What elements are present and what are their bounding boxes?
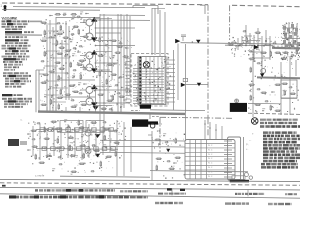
transistor Q1 body [86, 19, 93, 26]
wire signal run y42 [181, 43, 301, 45]
bias resistor network [41, 22, 47, 24]
TB1 area texture [152, 137, 153, 138]
transistor Q3 base wire [80, 55, 86, 57]
preamp diode D9 [95, 154, 100, 158]
rectifier parts [231, 42, 237, 44]
screw terminal E1 [143, 62, 149, 68]
title row 1 right [158, 193, 163, 195]
transistor Q2 body [86, 33, 93, 40]
module texture [135, 75, 136, 76]
wire collector stubs [95, 19, 97, 41]
driver stage parts [99, 37, 101, 43]
wire drops into bus [46, 107, 48, 113]
note row 3 [2, 26, 6, 28]
wire run y140 to table [100, 139, 185, 142]
board boundary A top (dash) [2, 3, 208, 5]
supply wire from header [133, 5, 158, 7]
note block 6 [4, 64, 7, 66]
pilot lamp LP1 [261, 68, 266, 73]
preamp transistor Q8 [85, 148, 91, 154]
transistor Q1 base wire [80, 22, 86, 24]
wire bus verticals to module [117, 14, 119, 112]
junctions above TB1 [204, 123, 206, 125]
svg-text:P-.: P-. [246, 144, 249, 147]
board boundary B top (dash) [232, 5, 300, 6]
chassis screw E2 [251, 118, 258, 125]
wire drop x185 [185, 44, 187, 141]
transistor Q5 base wire [80, 89, 86, 91]
svg-text:–·: –· [249, 139, 251, 143]
wire run y152 to table [100, 151, 185, 154]
wire verticals center top [151, 8, 153, 55]
module U1 pin dots [139, 57, 141, 59]
emitter link wire [89, 26, 91, 33]
note row 2 [2, 23, 7, 25]
transistor Q6 base wire [80, 101, 86, 103]
pilot lamp arrow [260, 73, 264, 77]
CN2 cap [232, 176, 245, 180]
title rule 1 [0, 179, 300, 181]
header rule upper [13, 7, 145, 8]
power connector black block [230, 103, 247, 112]
note block 8 paragraph [2, 98, 7, 100]
right mid texture [254, 61, 255, 62]
boundary A bottom (dash-dot) [160, 117, 233, 118]
wire drop x173 [173, 50, 175, 110]
transistor Q1 emitter arrow [91, 17, 97, 22]
right mid parts [249, 58, 255, 60]
title row 2 left [9, 196, 15, 199]
wire mains run [225, 44, 254, 46]
terminal cross mark [235, 99, 239, 103]
wire run y146 to table [103, 145, 185, 148]
transistor Q5 body [86, 87, 93, 94]
emitter link wire [89, 94, 91, 99]
connector CN2 body [228, 137, 241, 180]
title dark ticks [167, 188, 172, 190]
transistor Q2 base wire [80, 36, 86, 38]
transformer secondary parts [283, 52, 289, 54]
title rule 2 [0, 187, 300, 190]
module U1 body [138, 57, 166, 105]
board boundary B left edge (dash-dot) [229, 5, 231, 40]
left column wiring stubs [44, 23, 58, 25]
title rule 3 [0, 194, 300, 198]
title dashed separator [0, 183, 300, 186]
transformer T1 core [272, 47, 300, 50]
preamp diode D8 [95, 134, 100, 138]
relay RY1 innards [282, 83, 288, 85]
wire top runs [56, 17, 100, 19]
transistor Q4 emitter arrow [91, 68, 97, 73]
wire rails left column [46, 25, 48, 112]
module U1 left edge band [139, 56, 142, 106]
parts near TB1 [155, 139, 161, 141]
note row 6 [5, 42, 8, 44]
transistor Q3 body [86, 52, 93, 59]
note rule 2 [5, 34, 42, 36]
left column scan texture [77, 17, 80, 20]
collector out wires [93, 18, 112, 20]
wire mid runs [95, 27, 135, 29]
chassis dashed line right [248, 113, 300, 114]
dash marks under bus [131, 110, 140, 112]
transformer T1 winding blob [283, 26, 286, 30]
connector CN2 pins [224, 140, 232, 142]
transistor Q5 emitter arrow [91, 84, 97, 89]
input diode D10 [166, 149, 170, 152]
svg-text:V.d.b.MW.: V.d.b.MW. [2, 17, 18, 21]
transistor Q6 emitter arrow [91, 102, 97, 107]
title row 1 left [35, 189, 38, 191]
preamp texture [85, 151, 86, 152]
transistor Q4 base wire [80, 67, 86, 69]
note row 1 [2, 20, 6, 22]
boundary A stub below [207, 118, 209, 137]
module U1 outline dashed [131, 54, 168, 107]
module U1 right pins [166, 59, 175, 61]
right note rows [263, 131, 268, 134]
note row 5 [5, 36, 7, 38]
module U1 pin rows [133, 68, 139, 70]
terminal strip TB1 frame [185, 140, 235, 180]
transistor Q2 emitter arrow [91, 37, 97, 42]
preamp chain row 2 [36, 148, 118, 151]
grommet ring [150, 124, 155, 129]
off-page arrow K3 [181, 83, 186, 87]
right note line 2 [260, 122, 264, 124]
regulator rail thick [257, 76, 300, 79]
ground return upper [150, 109, 205, 112]
preamp transistor Q7 [85, 130, 91, 136]
transistor Q3 emitter arrow [91, 50, 97, 55]
collector out wires [93, 51, 112, 53]
off-page arrow K1 [175, 39, 180, 43]
wire bus pair left [35, 70, 37, 112]
note row 4 [5, 28, 11, 30]
flag K4 label plate [183, 78, 187, 81]
svg-text:.u .: .u . [20, 119, 23, 122]
TB1 column lines [189, 140, 191, 180]
wire to node top [200, 4, 205, 6]
note block 5 [2, 56, 8, 58]
wire drop x178 [177, 44, 179, 101]
power verticals [245, 25, 247, 46]
shielded cable mark W1 [140, 105, 151, 109]
logo dot lower [4, 8, 7, 11]
power texture [245, 36, 248, 39]
module U1 internal verticals [145, 57, 147, 104]
preamp verticals [32, 126, 34, 156]
transistor Q4 body [86, 64, 93, 71]
title divider verticals [171, 188, 173, 195]
terminal flag K4 [197, 83, 201, 87]
note block 4 [2, 45, 6, 47]
emitter link wire [89, 59, 91, 64]
power junction dots [239, 44, 241, 46]
fold mark left [2, 185, 6, 187]
title row 2 right clusters [155, 202, 159, 204]
title row 1 mid marks [120, 190, 123, 192]
boundary A lower-left edge (dash-dot) [159, 117, 161, 152]
svg-text:c. mw fe: c. mw fe [35, 174, 45, 178]
flag K2 stem [182, 37, 184, 42]
ferrite ring [244, 173, 248, 177]
svg-text:.w: .w [70, 173, 73, 176]
top parts row [55, 14, 61, 16]
preamp bottom rule [60, 176, 150, 177]
note heading 2 [5, 31, 22, 34]
bottom region rule [150, 171, 248, 172]
CN2 black base [230, 180, 249, 183]
relay RY1 box [281, 80, 297, 98]
note row single [2, 94, 13, 96]
right note line 3 [260, 125, 264, 128]
board boundary A right edge (dash-dot) [207, 5, 209, 118]
wire signal run y84 [186, 84, 208, 86]
module U1 left stubs [126, 57, 131, 59]
wire run y98 [281, 97, 297, 99]
driver texture [117, 39, 120, 42]
transistor Q6 body [86, 98, 93, 105]
wire feedback verticals mid [99, 14, 101, 135]
shielded cable mark W2 [132, 119, 148, 126]
regulator verticals [252, 49, 254, 117]
power horizontals [242, 40, 258, 42]
diode D7 mark [93, 106, 99, 110]
preamp parts field [31, 130, 37, 132]
ground bus rail 0V [38, 112, 185, 114]
wire run y103 [248, 102, 281, 104]
fuse arrow F1 [254, 45, 259, 50]
right note line 1 [260, 119, 266, 121]
preamp box outlines [60, 121, 83, 133]
junction dots left [95, 27, 97, 29]
header rule lower [2, 9, 100, 12]
cable label block [8, 139, 19, 146]
note block 7 paragraph [3, 72, 7, 74]
wire stub left of TB1 [151, 131, 153, 180]
logo dot upper [4, 5, 7, 8]
TB1 rows [185, 143, 235, 145]
TB1 top feeds [204, 120, 206, 140]
collector out wires [93, 85, 112, 87]
preamp chain row 1 [36, 129, 118, 132]
note heading 3 [5, 39, 19, 41]
cable stubs [149, 113, 151, 119]
